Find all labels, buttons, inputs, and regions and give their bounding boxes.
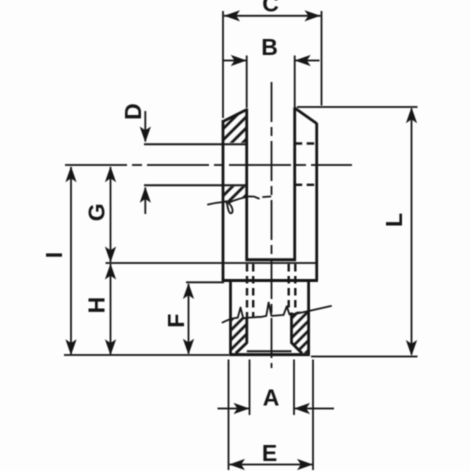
svg-text:G: G xyxy=(84,203,110,221)
svg-text:L: L xyxy=(381,213,407,227)
svg-text:A: A xyxy=(263,385,280,411)
svg-text:E: E xyxy=(262,440,277,466)
svg-text:B: B xyxy=(261,34,278,60)
svg-text:C: C xyxy=(262,0,279,17)
svg-text:D: D xyxy=(120,103,146,120)
svg-text:F: F xyxy=(163,314,189,328)
svg-text:I: I xyxy=(41,252,67,258)
svg-text:H: H xyxy=(84,297,110,314)
